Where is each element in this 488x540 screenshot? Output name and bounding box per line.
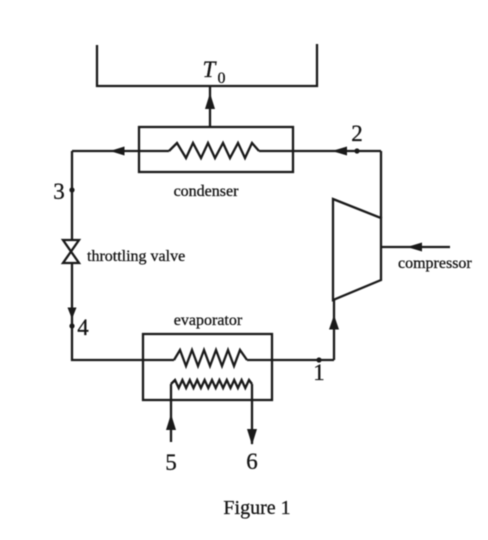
svg-text:2: 2 — [351, 121, 363, 146]
svg-text:5: 5 — [165, 450, 177, 475]
svg-text:evaporator: evaporator — [174, 312, 243, 329]
svg-text:condenser: condenser — [174, 183, 240, 200]
svg-text:Figure 1: Figure 1 — [223, 497, 290, 519]
svg-text:3: 3 — [53, 179, 65, 204]
svg-text:T: T — [203, 57, 218, 82]
svg-text:6: 6 — [246, 449, 258, 474]
svg-text:compressor: compressor — [398, 255, 472, 272]
svg-text:1: 1 — [313, 360, 325, 385]
svg-text:0: 0 — [218, 70, 226, 87]
svg-text:4: 4 — [77, 315, 89, 340]
svg-text:throttling valve: throttling valve — [87, 248, 185, 265]
